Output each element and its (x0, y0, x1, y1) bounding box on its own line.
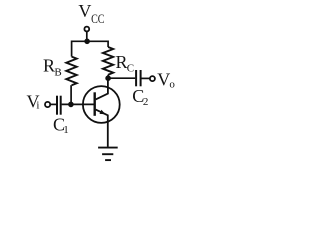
node: junction dot at Vcc rail (84, 39, 90, 45)
terminal Vi open circle (45, 102, 50, 107)
label RB (43, 56, 62, 79)
transistor Q1 emitter diagonal and lead (96, 110, 108, 147)
capacitor C1 plate 1 (56, 96, 58, 115)
ground top bar (98, 147, 118, 149)
capacitor C2 plate 2 (140, 70, 142, 86)
node: collector junction dot (105, 75, 111, 81)
wire: C1 to base (62, 103, 95, 105)
svg-text:CC: CC (91, 11, 104, 26)
transistor Q1 collector diagonal and lead (96, 78, 108, 99)
capacitor C1 plate 2 (60, 96, 62, 115)
resistor RB zigzag (66, 57, 76, 86)
transistor Q1 emitter arrowhead (100, 110, 106, 115)
svg-text:2: 2 (143, 96, 149, 108)
node: base junction dot (68, 102, 74, 108)
label C2 (132, 86, 148, 108)
svg-text:B: B (54, 67, 61, 79)
terminal Vcc open circle (84, 27, 89, 32)
transistor Q1 circle (83, 86, 120, 123)
terminal Vo open circle (150, 76, 155, 81)
wire: Vi to C1 (50, 103, 56, 105)
wire: top supply rail (72, 40, 108, 42)
wire: RB bottom lead to base node (70, 85, 72, 104)
svg-text:V: V (78, 1, 91, 21)
svg-text:C: C (127, 63, 134, 75)
svg-text:1: 1 (63, 124, 69, 136)
resistor RC zigzag (103, 47, 113, 75)
wire: RC top lead (107, 41, 109, 48)
wire: collector node to C2 (108, 77, 135, 79)
transistor Q1 base bar (93, 92, 95, 116)
wire: Vcc stub down to rail (86, 32, 88, 42)
svg-text:i: i (36, 100, 39, 112)
svg-text:R: R (116, 52, 128, 72)
capacitor C2 plate 1 (135, 70, 137, 86)
label RC (116, 52, 135, 75)
ground middle bar (102, 153, 113, 155)
label VCC (78, 1, 104, 26)
wire: RB top lead (71, 41, 73, 57)
svg-text:o: o (169, 79, 175, 91)
wire: C2 to output terminal (142, 77, 150, 79)
svg-text:V: V (157, 69, 170, 89)
wire: RC bottom lead to collector node (107, 75, 109, 79)
label Vo (157, 69, 175, 90)
ground bottom bar (105, 159, 111, 161)
label Vi (27, 92, 40, 112)
svg-text:R: R (43, 56, 55, 76)
label C1 (53, 115, 69, 137)
